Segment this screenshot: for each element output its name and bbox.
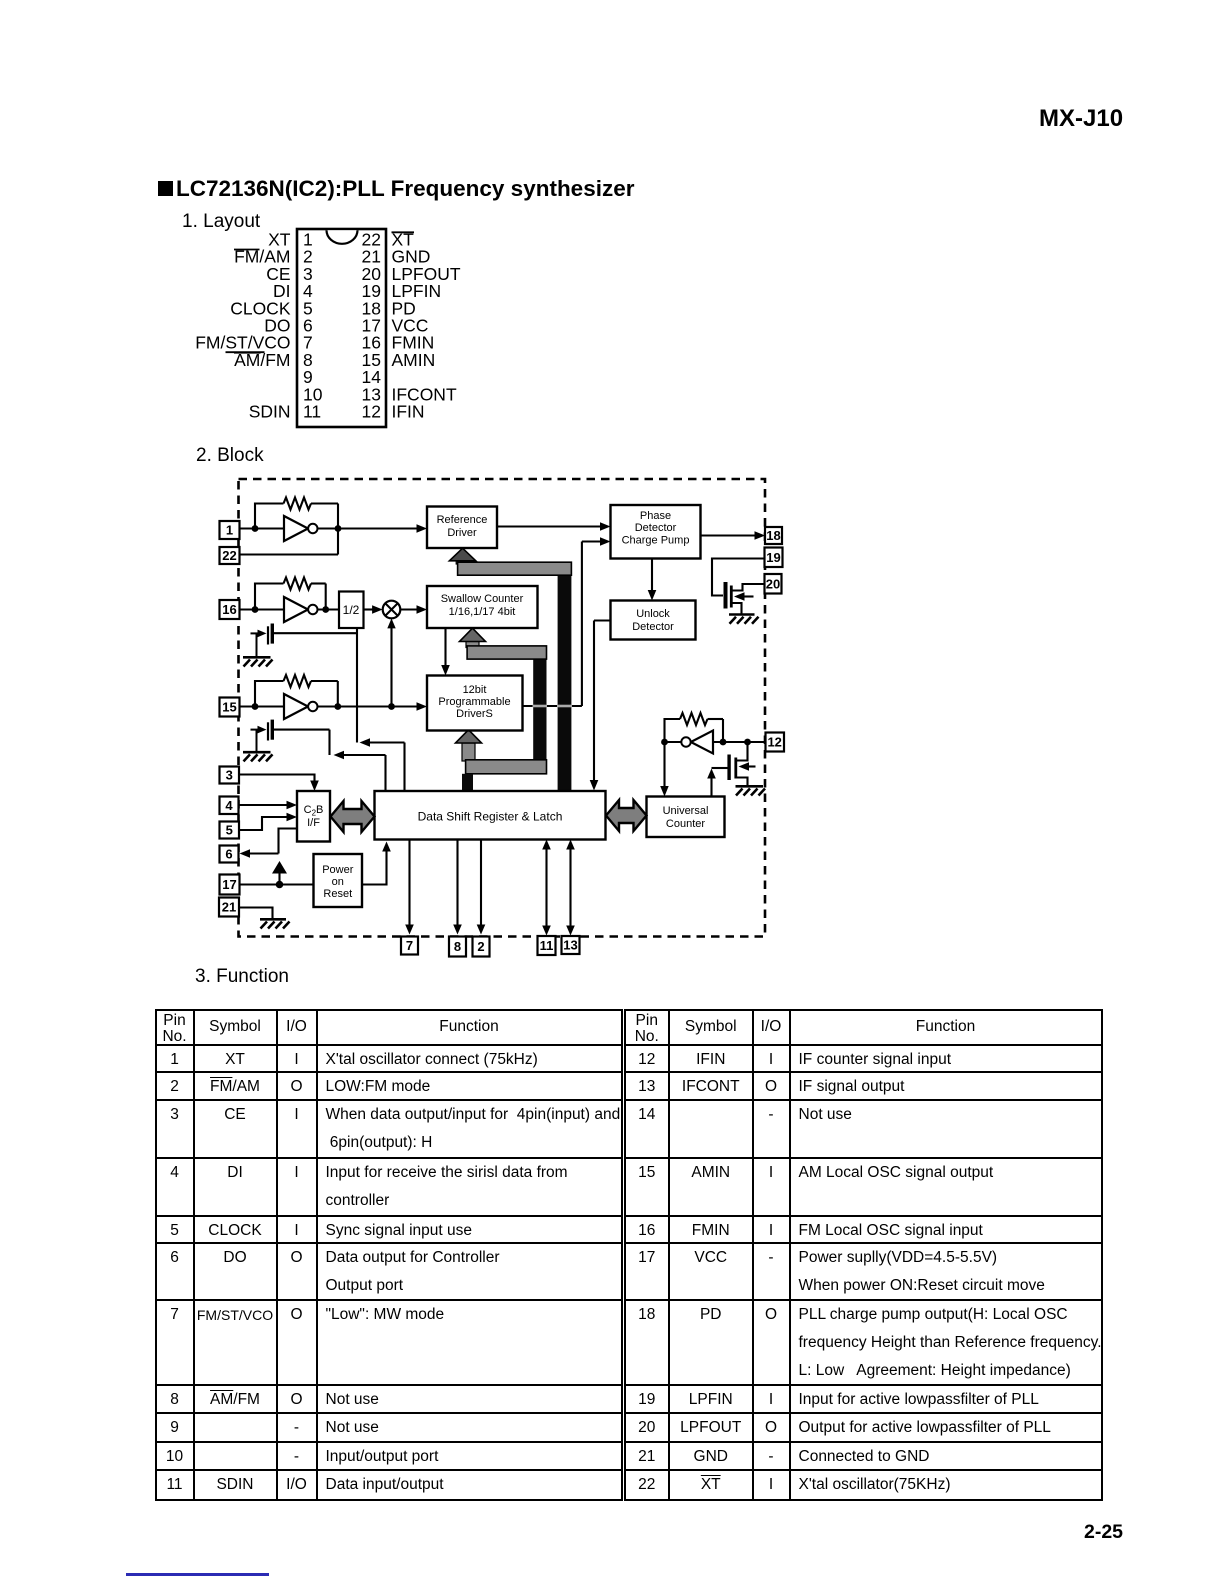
wire mixer to swallow counter: [400, 608, 421, 610]
arrowhead pin5 wire into CCB: [287, 813, 298, 822]
block Unlock Detector: [611, 601, 696, 640]
svg-text:Swallow Counter: Swallow Counter: [441, 593, 524, 605]
wire DSR to osc2 control: [363, 741, 405, 743]
wire pin15 line up to mixer: [390, 625, 392, 707]
node dot osc3 left: [252, 703, 259, 710]
arrowhead POR wire into DSR up: [382, 842, 391, 852]
wire pin1 to reference driver: [240, 527, 422, 529]
node dot osc2 right: [322, 606, 329, 613]
pin box 12: [766, 733, 785, 752]
pin name labels right side: [392, 230, 461, 422]
bus black riser B1 (to phase detector column): [558, 563, 572, 791]
wire pin16 to 1/2 divider: [240, 608, 340, 610]
block Reference Driver: [427, 507, 497, 549]
arrowhead swallow to 12bit down: [441, 665, 450, 676]
pin box 15: [220, 698, 240, 717]
wire DSR to pin11 bidirectional: [545, 845, 547, 930]
pin box 7: [401, 937, 418, 955]
pin box 18: [765, 527, 782, 544]
bus gray arrow A1 shaft into Reference Driver: [456, 558, 469, 565]
block CCB interface: [297, 791, 330, 842]
inverter U4 pointing left: [691, 731, 713, 754]
arrowhead mixer bottom pointing up: [387, 618, 395, 628]
svg-text:Phase: Phase: [640, 510, 671, 522]
node dot pin12 net mid: [720, 739, 727, 746]
bus gray horizontal 1: [458, 562, 572, 575]
transistor Q16: [267, 626, 269, 644]
arrowhead into pin7 down: [405, 925, 414, 935]
svg-text:20: 20: [766, 577, 780, 592]
ground below Q15: [243, 752, 273, 761]
pin numbers left column 1-11: [303, 230, 323, 422]
arrowhead into pin8 down: [453, 925, 462, 935]
wire Q12 drain up to pin12 net: [737, 742, 748, 761]
blue footer line: [126, 1573, 269, 1576]
wire DSR to pin2: [480, 840, 482, 929]
double arrow CCB to DSR: [331, 801, 375, 832]
svg-text:6: 6: [225, 847, 232, 862]
svg-text:4: 4: [225, 798, 233, 813]
svg-text:17: 17: [222, 877, 236, 892]
wire reference driver to phase detector: [497, 525, 604, 527]
wire DSR to pin8: [456, 840, 458, 929]
wire 12bit block to phase detector: [523, 705, 582, 707]
inverter U2: [284, 597, 308, 622]
arrowhead into unlock detector: [648, 590, 657, 601]
svg-text:19: 19: [766, 550, 780, 565]
svg-text:15: 15: [222, 700, 236, 715]
ground at pin21: [260, 919, 290, 928]
wire osc2 feedback loop: [255, 584, 284, 610]
svg-text:22: 22: [222, 548, 236, 563]
svg-text:8: 8: [454, 939, 461, 954]
wire Q15 drain: [274, 729, 330, 731]
IC top notch: [327, 230, 358, 244]
block 12bit Programmable DriverS: [427, 676, 523, 731]
mixer X1: [383, 601, 401, 619]
svg-text:Reference: Reference: [437, 514, 488, 526]
overline pin8 AM: [234, 352, 261, 354]
svg-text:5: 5: [226, 823, 233, 838]
wire universal counter to Q12 gate: [712, 767, 728, 769]
bus gray horizontal 3: [466, 760, 547, 774]
wire CCB interface to pin6: [245, 852, 279, 854]
wire unlock detector to DSR: [594, 619, 611, 621]
arrowhead DSR to osc3 pointing left: [334, 751, 345, 760]
wire pin5 to CCB interface: [239, 817, 291, 830]
arrowheads pin13 wire both ends: [566, 840, 575, 850]
block Power on Reset: [314, 854, 363, 907]
gray wire overlay where 12bit wire crosses black risers: [533, 705, 548, 708]
bus black riser B3 (bus3 down to data shift register): [462, 774, 473, 791]
node dot osc1 left: [252, 525, 259, 532]
pin terminal boxes: [219, 521, 784, 957]
block 1/2 divider: [339, 592, 364, 629]
arrowhead into universal counter down: [660, 786, 669, 797]
svg-text:18: 18: [766, 528, 780, 543]
wire osc1 feedback loop: [255, 504, 284, 529]
pin box 16: [220, 600, 240, 619]
pin box 6: [220, 846, 239, 863]
svg-text:21: 21: [222, 900, 236, 915]
svg-text:Charge Pump: Charge Pump: [622, 535, 690, 547]
block Phase Detector Charge Pump: [611, 505, 701, 559]
inverter U3: [284, 694, 308, 719]
svg-text:16: 16: [222, 602, 236, 617]
pin box 4: [220, 797, 239, 815]
pin box 21: [219, 898, 239, 917]
section title: [158, 176, 634, 202]
node dot osc2 left: [252, 606, 259, 613]
pin box 19: [765, 548, 783, 568]
arrowhead into phase detector lower: [600, 537, 611, 546]
wire Q20 source to ground: [733, 603, 742, 614]
pin box 22: [220, 547, 240, 564]
ground below Q16: [243, 657, 273, 666]
svg-text:3: 3: [226, 768, 233, 783]
node dot pin12 net left: [661, 739, 668, 746]
svg-text:1/2: 1/2: [343, 603, 360, 617]
resistor R3: [284, 675, 312, 687]
pin name labels left side: [195, 230, 291, 422]
pin box 11: [538, 936, 556, 955]
svg-text:1/16,1/17 4bit: 1/16,1/17 4bit: [449, 606, 516, 618]
node dot osc3 mixer branch: [388, 703, 395, 710]
arrowhead into swallow counter: [417, 605, 428, 614]
net riser from 1/2 divider down: [356, 628, 358, 743]
wire pin17 to power on reset: [240, 883, 314, 885]
wire 1/2 divider to mixer: [364, 608, 378, 610]
heading 1. Layout: [182, 211, 260, 233]
wire swallow counter to 12bit block: [444, 628, 446, 670]
svg-text:Unlock: Unlock: [636, 608, 670, 620]
svg-text:Programmable: Programmable: [438, 696, 510, 708]
pin box 5: [220, 822, 240, 839]
node dot osc3 right: [334, 703, 341, 710]
overline pin2 FM: [234, 249, 260, 251]
arrowhead into mixer: [372, 605, 383, 614]
resistor R2: [284, 578, 312, 590]
arrowhead Q12 stub pointing left: [739, 762, 750, 771]
dashed boundary of IC block: [239, 479, 766, 937]
wire DSR to pin13 bidirectional: [569, 845, 571, 930]
arrowhead into pin18: [755, 531, 766, 540]
pin box 3: [220, 767, 240, 784]
svg-text:Driver: Driver: [447, 527, 477, 539]
wire Q12 source to ground: [737, 778, 748, 786]
heading 2. Block: [196, 445, 264, 467]
heading 3. Function: [195, 966, 289, 988]
wire DSR to pin7: [408, 840, 410, 929]
svg-text:Universal: Universal: [663, 805, 709, 817]
wire Q20 arrow stub: [741, 595, 754, 597]
wire Q12 arrow stub: [746, 765, 756, 767]
arrowhead into reference driver input: [417, 524, 428, 533]
bus arrowhead into Reference Driver: [449, 548, 475, 561]
svg-text:12: 12: [767, 735, 781, 750]
resistor R1: [284, 498, 312, 510]
bus gray arrow A2 shaft into Swallow Counter: [466, 642, 479, 648]
arrowheads pin11 wire both ends: [542, 840, 551, 850]
wire osc3 feedback loop: [255, 681, 284, 707]
underline pin7 ST/V: [226, 351, 265, 353]
pin box 13: [562, 936, 580, 954]
svg-text:Power: Power: [322, 864, 354, 876]
resistor R4: [680, 713, 708, 725]
pin box 8: [449, 937, 466, 957]
wire Q16 drain to net riser: [274, 632, 357, 634]
pin box 20: [765, 574, 782, 594]
wire inverter U4 output to pin12: [713, 741, 766, 743]
node dot pin17 wire: [276, 881, 284, 889]
bus arrowhead into Swallow Counter: [460, 628, 486, 641]
svg-text:I/F: I/F: [307, 817, 320, 829]
wire pin22: [240, 553, 339, 555]
inverter U1: [284, 516, 308, 541]
block Universal Counter: [647, 797, 725, 838]
wire phase detector to pin18: [701, 534, 760, 536]
wire pin3 to CCB interface: [239, 775, 315, 786]
wire phase detector to unlock detector: [651, 559, 653, 595]
transistor Q20: [724, 582, 728, 609]
header model number MX-J10: [1039, 105, 1123, 133]
transistor Q15: [267, 722, 269, 740]
block Swallow Counter: [427, 586, 538, 628]
node dot pin12 net right: [744, 739, 751, 746]
block Data Shift Register and Latch: [375, 791, 606, 840]
bus black riser B2 (swallow counter to 12bit column): [533, 646, 546, 774]
svg-text:13: 13: [563, 938, 577, 953]
ground below Q20: [729, 615, 759, 624]
arrowhead into 12bit block: [417, 702, 428, 711]
pin box 2: [473, 937, 490, 957]
svg-text:Detector: Detector: [635, 522, 677, 534]
svg-text:Data Shift Register & Latch: Data Shift Register & Latch: [418, 810, 563, 824]
arrowhead Q16 gate: [258, 630, 267, 638]
arrowhead into pin2 down: [477, 925, 486, 935]
arrowhead pin4 wire into CCB: [287, 801, 298, 810]
svg-text:Detector: Detector: [632, 621, 674, 633]
svg-text:7: 7: [406, 938, 413, 953]
double arrow DSR to Universal Counter: [606, 800, 647, 831]
bus gray arrow A3 shaft into 12bit block: [462, 743, 475, 761]
wire pin15 to 12bit block: [240, 705, 422, 707]
supply arrow stem: [278, 873, 280, 885]
supply arrowhead bold: [272, 861, 287, 874]
wire power on reset to DSR: [362, 847, 387, 885]
arrowhead universal counter to Q12 gate up: [707, 769, 716, 779]
svg-text:1: 1: [226, 523, 233, 538]
svg-text:Counter: Counter: [666, 818, 705, 830]
transistor Q12: [727, 755, 730, 781]
arrowhead Q15 gate: [258, 726, 267, 734]
node dot osc1 right: [335, 525, 342, 532]
arrowhead Q20 stub pointing left: [734, 592, 745, 601]
wire pin19 to lowpass mosfet gate: [712, 559, 765, 596]
wire pin21 to ground: [239, 908, 273, 919]
arrowhead into phase detector upper: [600, 522, 611, 531]
arrowhead unlock wire into DSR down: [590, 780, 599, 791]
ground below Q12: [736, 786, 766, 795]
bus gray horizontal 2: [467, 646, 546, 659]
pin box 1: [220, 521, 240, 539]
page number: [1084, 1521, 1123, 1544]
arrowhead DSR to osc2 pointing left: [360, 738, 371, 747]
wire osc12 feedback loop: [665, 719, 681, 742]
svg-text:on: on: [332, 876, 344, 888]
wire pin4 to CCB interface: [239, 804, 292, 806]
bus arrowhead into 12bit block: [456, 730, 482, 743]
wire DSR to osc3 control: [338, 754, 386, 756]
arrowhead into pin6 pointing left: [240, 849, 251, 858]
arrowhead pin3 wire down into CCB: [310, 781, 319, 792]
overline pin22 XT: [392, 231, 415, 233]
svg-text:12bit: 12bit: [463, 684, 487, 696]
svg-text:2: 2: [477, 939, 484, 954]
wire node to universal counter: [663, 742, 665, 791]
svg-text:Reset: Reset: [323, 888, 352, 900]
IC body DIP-22: [297, 229, 386, 427]
svg-text:DriverS: DriverS: [456, 708, 493, 720]
pin box 17: [220, 875, 240, 895]
wire pin12 net left: [665, 741, 682, 743]
pin numbers right column 22-12: [362, 230, 382, 422]
wire Q20 drain to pin20: [733, 584, 765, 591]
svg-text:11: 11: [540, 938, 554, 953]
